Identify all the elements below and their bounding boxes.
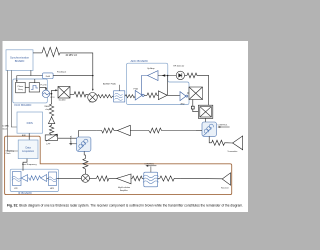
switch S2 <box>198 105 212 118</box>
white figure page <box>3 41 249 212</box>
resistor R-IF1 <box>97 95 113 98</box>
svg-text:Clock: Clock <box>6 153 11 155</box>
wire 10MHz clock (left drop A) <box>11 70 17 127</box>
svg-text:ADC BOARD: ADC BOARD <box>131 59 148 63</box>
high isolation amplifier <box>117 174 131 184</box>
PLL board (VCO board) <box>13 79 48 103</box>
receiver antenna <box>222 173 230 185</box>
svg-text:VCO BOARD: VCO BOARD <box>14 103 31 107</box>
page background <box>0 0 250 250</box>
resistor R-CH1 (vertical) <box>49 104 53 116</box>
wire to RX matching <box>79 131 97 138</box>
resistor R-IF3 <box>147 93 158 98</box>
svg-text:BOARD: BOARD <box>15 59 25 63</box>
DDS box <box>17 112 43 133</box>
ADC driver amp (blue) <box>180 92 186 101</box>
ADC board (blue, notched top-right) <box>127 63 190 104</box>
wire chirp R1 to amp <box>51 115 53 118</box>
wire doubler to resistor <box>70 93 74 95</box>
svg-text:Doubler: Doubler <box>59 100 66 102</box>
wire detector to op-amp with arrow <box>158 75 176 77</box>
svg-text:Amplifier: Amplifier <box>120 189 128 192</box>
transmitter antenna <box>233 136 243 150</box>
wire to receiver antenna <box>180 177 222 179</box>
wire mixer to HPF <box>57 177 82 179</box>
amplifier A-ADC <box>158 91 167 100</box>
LPF box <box>13 172 22 186</box>
svg-text:AD8347 PDAs: AD8347 PDAs <box>103 82 116 85</box>
PGA amplifier (blue) <box>135 91 142 101</box>
variable attenuator box <box>45 135 58 140</box>
resistor R-IF (blue) <box>28 176 41 181</box>
wire filter to R <box>158 177 160 179</box>
wire filter up to feedback <box>34 79 36 83</box>
wire ADC board to switch1 <box>187 92 189 94</box>
control arrow TX <box>218 126 229 128</box>
wire RX amp to R <box>114 130 117 132</box>
wire PFD to loop filter <box>25 86 29 88</box>
svg-text:10 MHz: 10 MHz <box>2 126 9 128</box>
VCO circle <box>42 90 49 97</box>
resistor R-TX1 <box>74 92 88 97</box>
amplifier A-RX (left) <box>117 125 130 135</box>
resistor R-RX1 <box>130 128 161 133</box>
svg-text:Synchronization: Synchronization <box>10 56 30 60</box>
svg-text:High-Isolation: High-Isolation <box>118 186 130 189</box>
doubler box <box>58 87 70 99</box>
wire 40MHz LO <box>33 52 42 54</box>
wire TX matching to resistor <box>209 136 211 142</box>
wire detector to resistor <box>185 74 187 76</box>
wire S2 to TX matching <box>205 118 207 122</box>
resistor R-TX2 <box>212 140 227 145</box>
wire PGA to R <box>144 94 147 96</box>
wire attenuator to RX matching box <box>58 137 77 139</box>
wire chirp down <box>51 94 53 104</box>
svg-text:CONTROL: CONTROL <box>144 164 155 166</box>
svg-text:Sampling: Sampling <box>6 150 14 152</box>
svg-text:RF detector: RF detector <box>173 65 184 68</box>
resistor R-IF2 <box>125 95 135 98</box>
wire filter to VCO with arrow <box>40 87 46 88</box>
svg-text:Acquisition: Acquisition <box>22 150 35 153</box>
wire to ADC driver <box>167 94 180 96</box>
termination mark <box>191 106 194 109</box>
wire op-amp output to PGA (blue) <box>142 76 148 96</box>
wire amp to RX filter <box>131 177 132 179</box>
svg-text:1MHz: 1MHz <box>44 106 49 108</box>
wire S2/TX box to RX chain <box>196 130 202 132</box>
wire LO to vertical <box>60 53 93 90</box>
svg-text:PLL filt: PLL filt <box>40 83 46 86</box>
svg-text:DivN: DivN <box>46 76 51 78</box>
resistor R-LO (40 MHz LO attenuator) <box>42 47 60 56</box>
amplifier A-IF1 (blue, left) <box>21 175 27 182</box>
wire sampling clock (left drop B) <box>7 70 18 151</box>
amplifier A-IF2 (blue, left) <box>41 175 47 182</box>
mixer M2 <box>81 174 89 182</box>
svg-text:Transmitter: Transmitter <box>227 150 237 153</box>
svg-text:Freq: Freq <box>18 89 22 91</box>
svg-text:PGA: PGA <box>134 87 139 90</box>
wire chirp amp to R2 <box>51 124 53 126</box>
svg-text:Beat Frequency: Beat Frequency <box>22 163 38 166</box>
wire DDS to data acquisition <box>28 133 30 140</box>
svg-text:DDS: DDS <box>27 121 33 125</box>
wire VCO to doubler <box>50 90 57 94</box>
mixer M1 (upconvert) <box>88 93 98 103</box>
resistor R-LO2 (vertical) <box>83 159 88 175</box>
phase frequency detector box <box>16 82 26 92</box>
svg-text:IF BOARD: IF BOARD <box>18 191 32 195</box>
filter box AD <box>114 91 125 102</box>
switch S1 <box>189 87 203 100</box>
wire S1 bottom to S2 <box>193 100 199 112</box>
HPF box <box>49 172 57 186</box>
svg-text:Mixer: Mixer <box>89 102 94 104</box>
wire RX matching down <box>84 151 85 158</box>
wire junction down <box>167 76 169 96</box>
resistor R-CH2 (vertical) <box>49 125 53 135</box>
amplifier A-CH (down) <box>48 117 54 124</box>
loop filter box <box>29 83 39 92</box>
TX matching network box <box>202 122 216 136</box>
svg-text:VCO: VCO <box>50 97 55 99</box>
data acquisition box <box>18 140 38 159</box>
RF detector D1 <box>176 71 184 79</box>
receiver outline (brown) <box>5 136 232 194</box>
control arrow RX <box>70 143 77 145</box>
synchronization board box <box>6 50 33 71</box>
resistor R-RF1 <box>96 176 116 181</box>
svg-text:40 MHz LO: 40 MHz LO <box>66 55 78 57</box>
svg-text:CONTROL: CONTROL <box>218 125 229 127</box>
wire to switch 2 <box>200 75 209 105</box>
op-amp U1 (blue, points left) <box>148 71 158 81</box>
resistor R-DET <box>187 73 200 78</box>
wire long <box>162 130 197 132</box>
divider DivN box <box>43 73 54 79</box>
svg-text:Clock: Clock <box>2 128 7 130</box>
wire beat frequency <box>23 159 27 171</box>
wire DivN to LO line <box>53 75 93 77</box>
svg-text:Feedback: Feedback <box>57 71 67 73</box>
RX matching network box <box>77 137 91 151</box>
resistor R-RF2 <box>160 176 181 181</box>
svg-text:Receiver: Receiver <box>221 187 229 189</box>
wire mixer M2 to R <box>90 177 97 179</box>
IF board (blue) <box>10 169 58 191</box>
RX filter matching box <box>144 172 158 187</box>
svg-text:Fig. 91: Block diagram of one: Fig. 91: Block diagram of one ice thickn… <box>7 203 243 207</box>
svg-text:Op Amp: Op Amp <box>147 67 155 70</box>
svg-text:Phase: Phase <box>18 86 25 88</box>
resistor R-RX2 <box>96 128 114 133</box>
wire feedback <box>17 76 43 82</box>
